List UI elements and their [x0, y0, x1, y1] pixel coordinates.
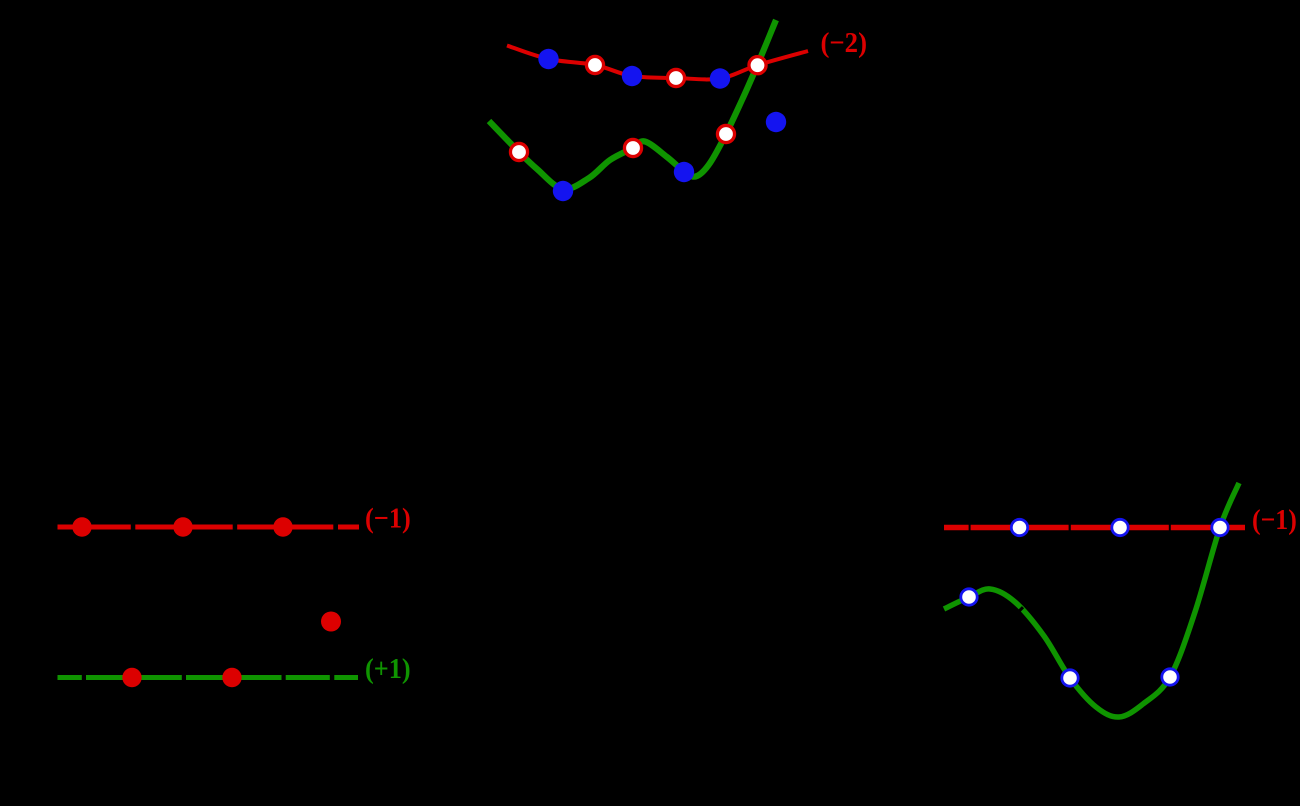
white point with red ring at crossing [749, 57, 766, 74]
blue point on green curve 1 [553, 181, 573, 201]
white point with red ring on red curve 2 [667, 69, 684, 86]
red point on green line 2 [222, 668, 241, 687]
white point with blue ring on red line 1 [1011, 519, 1027, 535]
white point with blue ring on green curve 2 [1062, 670, 1078, 686]
red point on red line 2 [173, 517, 192, 536]
blue point on green curve 2 [674, 162, 694, 182]
white point with red ring on green curve 3 [717, 125, 734, 142]
green curve (student, top panel) [489, 20, 776, 189]
white point with red ring on red curve 1 [586, 56, 603, 73]
blue point on red curve 2 [622, 66, 642, 86]
green dashed line y=+1 [58, 675, 359, 680]
white point with red ring on green curve 1 [510, 143, 527, 160]
white point with blue ring at crossing bottom-right [1212, 519, 1228, 535]
svg-text:(−1): (−1) [1252, 504, 1297, 536]
green curve bottom-right [944, 483, 1239, 717]
red point on red line 1 [72, 517, 91, 536]
svg-text:(+1): (+1) [365, 653, 411, 685]
red line y=-1 bottom-right [944, 525, 1245, 531]
white point with blue ring on green curve 3 [1162, 669, 1178, 685]
svg-text:(−1): (−1) [365, 503, 411, 535]
red point on green line 1 [122, 668, 141, 687]
red curve (teacher, top panel) [507, 46, 808, 80]
blue point on red curve 3 [710, 68, 730, 88]
white point with blue ring on red line 2 [1112, 519, 1128, 535]
blue point on red curve 1 [538, 49, 558, 69]
notch gap in green curve at x=1019 [1016, 607, 1023, 614]
isolated red point bottom-left [321, 612, 341, 632]
red dashed line y=-1 [58, 525, 360, 530]
red point on red line 3 [273, 517, 292, 536]
white point with blue ring on green curve 1 [961, 589, 977, 605]
svg-text:(−2): (−2) [821, 27, 868, 59]
white point with red ring on green curve 2 [624, 139, 641, 156]
isolated blue point top panel [766, 112, 786, 132]
